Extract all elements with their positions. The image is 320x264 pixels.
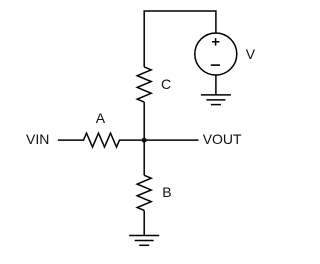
svg-text:C: C bbox=[161, 76, 171, 92]
svg-text:B: B bbox=[162, 184, 171, 200]
svg-text:VIN: VIN bbox=[26, 131, 49, 147]
svg-text:VOUT: VOUT bbox=[203, 131, 242, 147]
svg-text:V: V bbox=[246, 46, 256, 62]
svg-text:A: A bbox=[96, 110, 106, 126]
